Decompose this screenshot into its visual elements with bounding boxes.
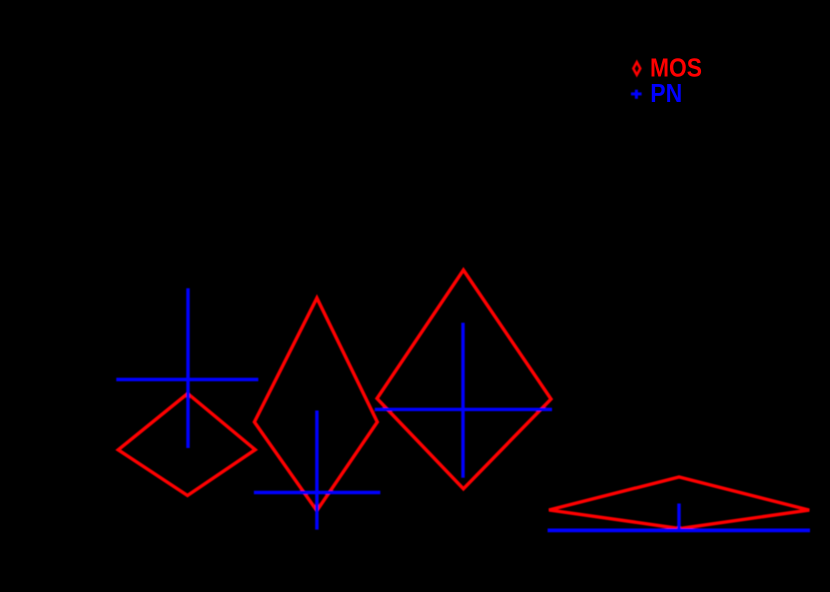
PN error bar cluster 3 horizontal (375, 408, 552, 411)
PN error bar cluster 1 vertical (186, 288, 189, 448)
PN error bar cluster 4 horizontal (548, 529, 810, 533)
svg-text:PN: PN (650, 78, 682, 108)
MOS diamond cluster 4 (549, 477, 809, 529)
MOS diamond cluster 2 (254, 298, 377, 511)
PN error bar cluster 2 horizontal (254, 491, 380, 494)
PN error bar cluster 4 vertical (677, 504, 680, 533)
legend marker MOS diamond (633, 62, 640, 75)
PN error bar cluster 3 vertical (461, 323, 464, 478)
PN error bar cluster 1 horizontal (116, 378, 258, 381)
MOS diamond cluster 1 (118, 394, 255, 496)
legend marker PN plus (631, 92, 642, 95)
PN error bar cluster 2 vertical (315, 411, 318, 530)
MOS diamond cluster 3 (377, 270, 551, 489)
